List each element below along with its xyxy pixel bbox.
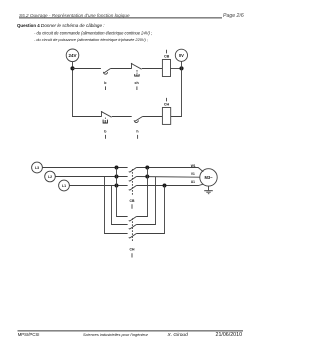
phase L3 [32, 162, 43, 173]
phase L2 [45, 171, 56, 182]
svg-text:S5.2 Ouvrage - Représentation: S5.2 Ouvrage - Représentation d'une fonc… [19, 13, 130, 18]
phase L1 [59, 180, 70, 191]
svg-text:b: b [104, 81, 107, 85]
wire row1 left [73, 68, 101, 70]
wire right drop E [136, 177, 155, 225]
wire line1 right [136, 168, 203, 172]
wire left drop A [117, 168, 128, 217]
contactor CB pole2 [129, 177, 136, 182]
svg-text:- du circuit de puissance (ali: - du circuit de puissance (alimentation … [34, 37, 148, 42]
wire row2 mid [112, 116, 132, 118]
coil CB [162, 60, 170, 77]
coil CH [162, 108, 170, 125]
node right junction [179, 66, 183, 70]
contact b (NO) row1 [103, 72, 107, 74]
contact h (NO) row2 [134, 120, 138, 122]
header rule [19, 17, 222, 19]
svg-text:24V: 24V [68, 53, 76, 58]
wire row2 right [142, 116, 162, 118]
svg-text:V1: V1 [191, 172, 195, 176]
ground [204, 186, 213, 194]
svg-text:b: b [104, 130, 107, 134]
wire right vertical [171, 68, 182, 116]
wire row1 mid [110, 68, 131, 70]
contactor CB pole1 [129, 168, 136, 173]
wire coil CB to right node [171, 68, 182, 70]
node tap L3 [115, 166, 119, 170]
node right1 [145, 166, 149, 170]
CH linkage [131, 218, 133, 241]
node tap L2 [115, 175, 119, 179]
svg-text:Question 4 :Donner le schéma d: Question 4 :Donner le schéma de câblage … [17, 23, 105, 28]
CB linkage [131, 169, 133, 196]
wire bus line1 [42, 167, 127, 169]
svg-text:MPSI/PCSI: MPSI/PCSI [18, 332, 40, 337]
svg-text:- du circuit de commande (alim: - du circuit de commande (alimentation é… [34, 30, 152, 35]
footer rule [18, 330, 244, 332]
wire bus line2 [55, 176, 127, 178]
svg-text:M3~: M3~ [204, 175, 213, 180]
svg-text:W1: W1 [191, 164, 196, 168]
contactor CB pole3 [129, 186, 136, 191]
svg-text:CB: CB [164, 55, 170, 59]
supply 24V [66, 49, 79, 62]
contactor CH pole3 [129, 234, 136, 239]
wire right drop D [136, 168, 147, 217]
svg-text:U1: U1 [191, 180, 195, 184]
contact ch (NC) row1 [131, 64, 133, 69]
svg-text:CB: CB [130, 199, 135, 203]
wire bus line3 [69, 185, 127, 187]
svg-text:21/06/2010: 21/06/2010 [216, 332, 243, 338]
wire right drop F [136, 186, 164, 234]
node left junction [70, 66, 74, 70]
motor M3~ [200, 169, 217, 186]
contact cb (NC) row2 [101, 112, 103, 117]
svg-text:L3: L3 [35, 166, 39, 170]
wire line3 right [136, 184, 203, 185]
svg-text:L1: L1 [62, 184, 66, 188]
contactor CH pole2 [129, 225, 136, 230]
wire left drop B [105, 177, 128, 234]
node right3 [163, 184, 167, 188]
contactor CH pole1 [129, 217, 136, 222]
svg-text:h: h [136, 130, 138, 134]
svg-text:0V: 0V [179, 53, 184, 58]
svg-text:ch: ch [134, 81, 138, 85]
supply 0V [175, 49, 187, 61]
wire line2 right [136, 176, 200, 179]
svg-text:CH: CH [164, 103, 170, 107]
svg-text:X. Giroud: X. Giroud [167, 332, 189, 338]
wire 24V stem + left vertical [73, 62, 102, 117]
wire row1 right [142, 68, 163, 70]
wire 0V stem [181, 61, 183, 68]
svg-text:Page 2/6: Page 2/6 [223, 13, 244, 19]
wire left drop C [112, 186, 128, 225]
node right2 [145, 175, 149, 179]
node tap L1 [115, 184, 119, 188]
svg-text:CH: CH [130, 248, 135, 252]
svg-text:Sciences industrielles pour l': Sciences industrielles pour l'ingénieur [83, 332, 149, 337]
svg-text:L2: L2 [48, 175, 52, 179]
